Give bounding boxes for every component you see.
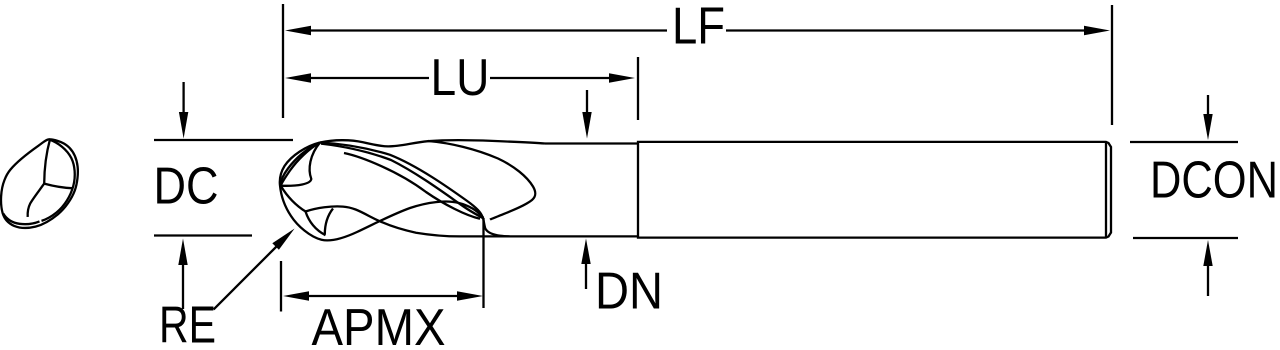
dimension APMX right arrowhead [457,291,483,300]
flute band line 3 [344,153,480,219]
flute band end tail [483,217,510,237]
dimension LF right arrowhead [1084,26,1110,35]
3D tip view bottom-left inner rim [3,214,39,225]
dimension LU left arrowhead [285,73,311,82]
dimension DN bottom arrow line [585,264,587,289]
ball inner rim arc 1 [280,143,320,186]
dimension DCON bottom arrowhead [1203,240,1212,266]
shank end inner line [1105,142,1107,238]
dimension DCON top arrow line [1207,95,1209,114]
dimension LF right extension line [1111,5,1113,125]
svg-text:LF: LF [672,0,725,56]
dimension LU right extension line [637,57,639,120]
dimension DC top arrow line [182,82,184,112]
dimension APMX line [301,295,465,297]
3D tip view outer outline [1,139,78,228]
ball gash lower arc [306,212,326,236]
dimension DCON bottom extension line [1133,237,1238,239]
dimension DCON bottom arrow line [1207,266,1209,296]
dimension LF line left segment [303,29,667,31]
ball crossing arc [325,209,333,235]
dimension DC top arrowhead [179,112,188,139]
ball outer outline and heel curve [280,143,483,241]
dimension LF left arrowhead [285,26,311,35]
dimension DC bottom arrowhead [178,239,187,266]
shank outline [638,142,1111,238]
flute top silhouette [320,140,545,146]
svg-text:DCON: DCON [1150,152,1278,210]
leader line RE [214,244,279,309]
ball gash arc from apex [281,143,320,186]
3D tip view flute edge to lower left [28,184,45,217]
leader RE arrowhead [272,229,294,250]
dimension DN top arrow line [586,90,588,112]
3D tip view right lobe inner rim [42,140,75,221]
svg-text:DN: DN [595,263,663,321]
dimension LU right arrowhead [609,73,635,82]
neck bottom line [545,235,638,237]
dimension LU line right segment [490,77,617,79]
3D tip view flute edge to right [44,184,73,189]
scoop flute curve [428,141,535,220]
svg-text:DC: DC [154,158,219,216]
dimension DN top arrowhead [582,112,591,139]
ball gash arc from left tip [281,186,306,212]
dimension DC top extension line [154,139,293,141]
dimension APMX left arrowhead [283,291,309,300]
dimension DC bottom extension line [154,234,252,236]
dimension APMX right extension line [482,218,484,308]
ball inner rim arc 2 [281,143,320,186]
svg-text:LU: LU [431,49,490,107]
flute band line 1 [320,143,483,218]
dimension DN bottom arrowhead [581,239,590,265]
svg-text:APMX: APMX [312,299,446,350]
dimension LU line left segment [303,77,429,79]
svg-text:RE: RE [159,297,216,350]
3D tip view flute edge to top [44,139,50,183]
neck top line [545,142,638,144]
dimension LF left extension line [282,4,284,118]
dimension DCON top arrowhead [1203,114,1212,140]
dimension DC bottom arrow line [182,265,184,309]
flute band line 2 [321,144,483,219]
dimension LF line right segment [726,29,1092,31]
bottom silhouette heel-to-neck curve [306,206,546,236]
dimension DCON top extension line [1130,141,1238,143]
dimension APMX left extension line [280,261,282,312]
